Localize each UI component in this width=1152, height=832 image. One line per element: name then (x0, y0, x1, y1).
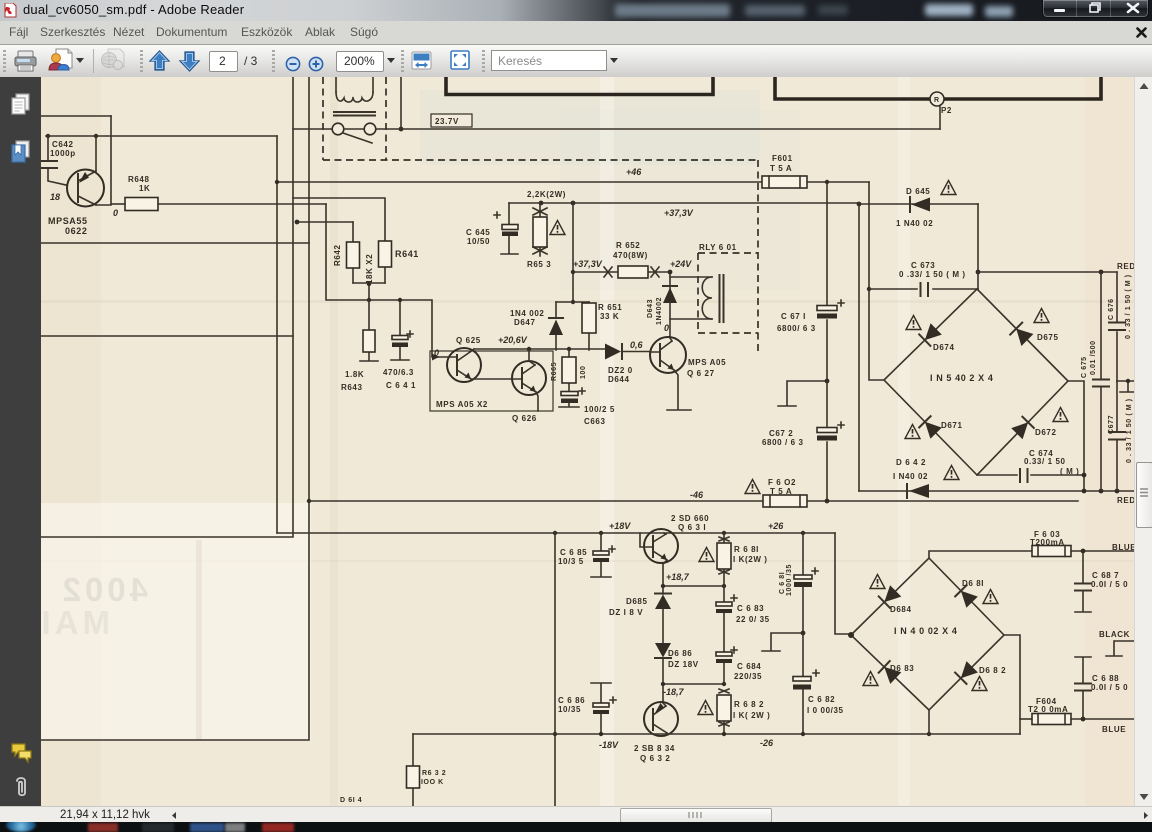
svg-text:18K X2: 18K X2 (365, 254, 374, 284)
transistor Q625 (434, 335, 528, 382)
svg-text:C 68 7: C 68 7 (1092, 571, 1119, 580)
svg-text:D 6I 4: D 6I 4 (340, 797, 362, 804)
svg-text:C642: C642 (52, 140, 74, 149)
wire node -18,7 (661, 682, 726, 697)
wire +20,6V rail y349 (474, 347, 605, 351)
svg-text:D644: D644 (608, 375, 630, 384)
relay coil (transformer) (334, 77, 375, 116)
wire vertical x869 to bridge (867, 182, 884, 380)
svg-text:1000p: 1000p (50, 149, 76, 158)
svg-text:100: 100 (580, 366, 587, 379)
svg-text:2 SD 660: 2 SD 660 (671, 514, 709, 523)
wire -46 rail (309, 490, 1078, 503)
svg-text:C 675: C 675 (1081, 356, 1088, 378)
svg-text:10/50: 10/50 (467, 237, 490, 246)
dashed enclosure inner edge (385, 77, 387, 160)
svg-text:I K( 2W ): I K( 2W ) (733, 711, 770, 720)
svg-text:23.7V: 23.7V (435, 117, 459, 126)
svg-text:C 673: C 673 (911, 261, 935, 270)
svg-text:R 652: R 652 (616, 241, 640, 250)
svg-text:2,2K(2W): 2,2K(2W) (527, 190, 566, 199)
svg-text:0: 0 (113, 208, 118, 218)
capacitor C687 (1075, 551, 1128, 612)
wire bridge right output (1068, 381, 1086, 491)
wire rail y243 (41, 242, 309, 244)
svg-text:Q 626: Q 626 (512, 414, 537, 423)
wire bus vertical x277 (276, 136, 278, 533)
wire stub x401 into dashed box (399, 77, 404, 131)
capacitor C641 (383, 298, 416, 390)
svg-text:C 6 8I: C 6 8I (779, 572, 786, 594)
wire vertical x859 (858, 204, 860, 491)
warning triangle near D681 (983, 590, 998, 604)
svg-text:DZ2 0: DZ2 0 (608, 366, 633, 375)
node BLACK output (1099, 630, 1134, 656)
transistor Q632 (599, 702, 678, 763)
wire bus vertical x293 with bottom return (41, 77, 293, 537)
svg-text:Q 625: Q 625 (456, 336, 481, 345)
warning triangle near F602 (745, 480, 760, 494)
svg-text:1 N40 02: 1 N40 02 (896, 219, 933, 228)
wire F601 to corner (807, 180, 869, 184)
transistor Q MPSA55 (48, 136, 111, 236)
wire +26 drop to bridge B2 (835, 533, 851, 634)
svg-text:D684: D684 (890, 605, 912, 614)
resistor R641 (293, 198, 419, 284)
svg-text:10/35: 10/35 (558, 705, 581, 714)
warning triangle near D672 (1053, 408, 1068, 422)
svg-text:I K(2W ): I K(2W ) (733, 555, 768, 564)
svg-text:470/6.3: 470/6.3 (383, 368, 414, 377)
zener D685 (609, 586, 671, 643)
svg-text:18: 18 (50, 192, 60, 202)
svg-text:BLACK: BLACK (1099, 630, 1130, 639)
resistor R643 (341, 300, 378, 392)
wire +18V rail y533 (277, 521, 835, 535)
wire B2 bottom vertex drop (928, 710, 930, 734)
transistor Q626 (436, 349, 546, 423)
svg-text:RLY 6 01: RLY 6 01 (699, 243, 737, 252)
capacitor C674 (977, 449, 1084, 482)
wire vertical x978 (976, 204, 981, 289)
warning triangle near D642 (944, 466, 959, 480)
wire R648 output (158, 203, 326, 205)
diode D682 (955, 661, 1006, 684)
pcb block border upper (446, 77, 713, 95)
svg-text:BLUE: BLUE (1102, 725, 1126, 734)
wire rail y222 (295, 220, 353, 225)
wire BLUE+ output (1071, 543, 1136, 553)
svg-text:MPS A05 X2: MPS A05 X2 (436, 400, 488, 409)
svg-text:MPS A05: MPS A05 (688, 358, 726, 367)
wire rail y204 (+37,3V) (509, 190, 861, 218)
resistor R653 (527, 203, 551, 269)
wire vertical drop to node 0 (110, 116, 112, 204)
svg-text:R65 3: R65 3 (527, 260, 551, 269)
diode D684 (879, 585, 912, 614)
diode D672 (1011, 417, 1056, 440)
svg-text:R 6 8 2: R 6 8 2 (734, 700, 764, 709)
warning triangle near R682 (698, 701, 713, 715)
svg-text:D674: D674 (933, 343, 955, 352)
svg-text:0.33/ 1 50: 0.33/ 1 50 (1024, 457, 1066, 466)
wire -26 rail y734 (413, 732, 1020, 748)
svg-text:0: 0 (434, 348, 439, 358)
resistor R665 (551, 349, 587, 391)
bridge rectifier B1 diamond (884, 289, 1068, 475)
svg-text:C 6 4 1: C 6 4 1 (386, 381, 416, 390)
diode D647 (510, 302, 589, 350)
svg-text:F601: F601 (772, 154, 793, 163)
svg-text:D6 8I: D6 8I (962, 579, 984, 588)
svg-text:F 6 O2: F 6 O2 (768, 478, 796, 487)
svg-text:0 . 33 / 1 50 ( M ): 0 . 33 / 1 50 ( M ) (1125, 274, 1132, 339)
svg-text:C 6 86: C 6 86 (558, 696, 585, 705)
resistor R681 (717, 533, 768, 586)
svg-text:+18,7: +18,7 (666, 572, 690, 582)
wire rail y336 (41, 335, 293, 337)
svg-text:-18V: -18V (599, 740, 619, 750)
capacitor C671 (777, 182, 844, 381)
svg-text:+24V: +24V (670, 259, 692, 269)
svg-text:2 SB 8 34: 2 SB 8 34 (634, 744, 675, 753)
svg-text:0 .33/ 1 50 ( M ): 0 .33/ 1 50 ( M ) (899, 270, 966, 279)
label D614 (340, 797, 362, 804)
svg-text:R642: R642 (333, 244, 342, 266)
svg-text:D 645: D 645 (906, 187, 930, 196)
svg-text:+26: +26 (768, 521, 784, 531)
fuse F601 (762, 154, 807, 188)
svg-text:R648: R648 (128, 175, 150, 184)
svg-text:C 6 82: C 6 82 (808, 695, 835, 704)
capacitor C683 (716, 586, 770, 652)
svg-text:I N 4 0 02 X 4: I N 4 0 02 X 4 (894, 626, 957, 636)
svg-text:6800/ 6 3: 6800/ 6 3 (777, 324, 816, 333)
fuse F602 (763, 478, 807, 507)
warning triangle near D674 (906, 316, 921, 330)
svg-text:C 676: C 676 (1108, 298, 1115, 320)
warning triangle near D683 (863, 672, 878, 686)
svg-text:IOO K: IOO K (421, 779, 444, 786)
resistor R642 (333, 222, 360, 283)
svg-text:+37,3V: +37,3V (573, 259, 603, 269)
capacitor C676 (1108, 272, 1132, 381)
trimmer P2 (930, 92, 952, 129)
svg-text:220/35: 220/35 (734, 672, 762, 681)
svg-text:-18,7: -18,7 (663, 687, 685, 697)
svg-text:+18V: +18V (609, 521, 631, 531)
matched pair box Q625/Q626 (430, 351, 553, 411)
svg-text:4002: 4002 (59, 571, 148, 608)
node 23.7V label (431, 114, 472, 127)
svg-text:D647: D647 (514, 318, 536, 327)
capacitor C675 (1081, 272, 1109, 491)
diode D675 (1010, 323, 1058, 346)
pcb block border right (775, 77, 1101, 99)
svg-text:1000 /35: 1000 /35 (786, 564, 793, 596)
svg-text:D6 83: D6 83 (890, 664, 914, 673)
svg-text:0.01 /500: 0.01 /500 (1090, 340, 1097, 375)
svg-text:DZ I 8 V: DZ I 8 V (609, 608, 643, 617)
capacitor C645 (466, 203, 518, 254)
svg-text:DZ 18V: DZ 18V (668, 660, 699, 669)
diode D644 (605, 340, 650, 384)
svg-text:1N4002: 1N4002 (656, 297, 663, 325)
warning triangle near D675 (1034, 309, 1049, 323)
wire output mid tap (1117, 379, 1135, 392)
svg-text:T200mA: T200mA (1030, 538, 1065, 547)
svg-text:D685: D685 (626, 597, 648, 606)
transistor Q631 (640, 514, 709, 586)
svg-text:22 0/ 35: 22 0/ 35 (736, 615, 770, 624)
svg-text:Q 6 27: Q 6 27 (687, 369, 715, 378)
svg-text:C67 2: C67 2 (769, 429, 793, 438)
svg-text:Q 6 3 I: Q 6 3 I (678, 523, 706, 532)
bridge rectifier B2 diamond (848, 558, 1004, 710)
svg-text:C 684: C 684 (737, 662, 761, 671)
svg-text:D643: D643 (647, 299, 654, 318)
svg-text:R643: R643 (341, 383, 363, 392)
wire collector rail y136 (46, 134, 277, 138)
capacitor C684 (716, 647, 762, 684)
fuse F603 (1030, 530, 1071, 557)
resistor R648 (111, 175, 158, 211)
svg-text:I N40 02: I N40 02 (893, 472, 928, 481)
wire jog to Q625 base (326, 204, 439, 361)
zener D686 (655, 643, 699, 701)
svg-text:T2 0 0mA: T2 0 0mA (1028, 705, 1068, 714)
svg-text:C 6 85: C 6 85 (560, 548, 587, 557)
svg-text:D675: D675 (1037, 333, 1059, 342)
wire emitter node +18,7 (661, 572, 726, 588)
svg-text:-46: -46 (690, 490, 704, 500)
resistor R632 (407, 734, 447, 806)
warning triangle near R653 (550, 221, 565, 235)
svg-text:T 5 A: T 5 A (770, 164, 792, 173)
svg-text:+37,3V: +37,3V (664, 208, 694, 218)
wire vertical x573 (571, 203, 575, 304)
dashed enclosure right edge (757, 160, 759, 352)
wire vertical x555 (553, 533, 557, 806)
svg-text:MPSA55: MPSA55 (48, 216, 88, 226)
resistor R652 (573, 241, 692, 278)
svg-text:T 5 A: T 5 A (770, 487, 792, 496)
diode D683 (879, 661, 915, 684)
warning triangle near D684 (870, 575, 885, 589)
capacitor C681 (779, 533, 818, 633)
svg-text:I N 5 40 2 X 4: I N 5 40 2 X 4 (930, 373, 993, 383)
svg-text:R665: R665 (551, 362, 558, 381)
capacitor C642 (41, 136, 76, 185)
svg-text:Q 6 3 2: Q 6 3 2 (640, 754, 670, 763)
relay contacts (332, 123, 376, 143)
wire R642/R641 junction (353, 282, 385, 302)
svg-text:C677: C677 (1108, 415, 1115, 434)
relay RLY601 (670, 243, 758, 333)
svg-text:+46: +46 (626, 167, 642, 177)
wire B2 right output (1004, 635, 1020, 734)
svg-text:100/2 5: 100/2 5 (584, 405, 615, 414)
svg-text:1K: 1K (139, 184, 150, 193)
svg-text:470(8W): 470(8W) (613, 251, 648, 260)
svg-text:33 K: 33 K (600, 312, 619, 321)
resistor R651 (582, 302, 622, 350)
svg-text:R 6 8I: R 6 8I (734, 545, 759, 554)
svg-text:0622: 0622 (65, 226, 87, 236)
svg-text:+20,6V: +20,6V (498, 335, 528, 345)
capacitor C673 (869, 261, 978, 296)
capacitor C686 (558, 683, 616, 734)
svg-text:( M ): ( M ) (1060, 467, 1079, 476)
warning triangle near D671 (905, 425, 920, 439)
svg-text:1N4 002: 1N4 002 (510, 309, 544, 318)
fuse F604 (1020, 697, 1071, 725)
svg-text:D6 8 2: D6 8 2 (979, 666, 1006, 675)
wire +46 rail y182 (275, 167, 762, 184)
capacitor C688 (1075, 657, 1128, 719)
diode D671 (919, 416, 962, 439)
svg-text:C663: C663 (584, 417, 606, 426)
svg-text:-26: -26 (760, 738, 774, 748)
svg-text:10/3 5: 10/3 5 (558, 557, 584, 566)
capacitor C682 (793, 633, 844, 734)
svg-text:MAI: MAI (41, 604, 110, 641)
wire relay rail y129 (293, 128, 940, 130)
diode D643 (647, 270, 677, 337)
svg-text:D672: D672 (1035, 428, 1057, 437)
ground stub centre tap (762, 631, 805, 651)
svg-text:C 6 83: C 6 83 (737, 604, 764, 613)
svg-text:C 67 I: C 67 I (781, 312, 806, 321)
svg-text:0.0I / 5 0: 0.0I / 5 0 (1091, 683, 1128, 692)
capacitor C663 (559, 388, 615, 426)
dashed enclosure bottom edge (323, 159, 758, 161)
capacitor C677 (1108, 381, 1133, 491)
svg-text:R6 3 2: R6 3 2 (422, 770, 446, 777)
svg-text:0: 0 (664, 323, 669, 333)
svg-text:P2: P2 (941, 106, 952, 115)
svg-text:0 . 33 / 1 50 ( M ): 0 . 33 / 1 50 ( M ) (1126, 398, 1133, 463)
svg-text:1.8K: 1.8K (345, 370, 364, 379)
svg-text:C 645: C 645 (466, 228, 490, 237)
resistor R682 (717, 689, 770, 734)
svg-text:D 6 4 2: D 6 4 2 (896, 458, 926, 467)
wire BLUE- output (1071, 717, 1134, 734)
svg-text:RED: RED (1117, 262, 1134, 271)
svg-text:0.0I / 5 0: 0.0I / 5 0 (1091, 580, 1128, 589)
svg-text:6800 / 6 3: 6800 / 6 3 (762, 438, 804, 447)
dashed enclosure left edge (322, 77, 324, 160)
diode D645 (859, 187, 978, 228)
capacitor C685 (558, 533, 615, 577)
warning triangle near R681 (699, 548, 714, 562)
svg-text:I 0 00/35: I 0 00/35 (807, 706, 844, 715)
transistor Q627 (650, 337, 726, 410)
wire B2 top output (929, 551, 1032, 558)
svg-text:R 651: R 651 (598, 303, 622, 312)
capacitor C672 (762, 381, 844, 501)
diode D642 (859, 458, 1136, 505)
svg-text:R: R (934, 97, 940, 104)
wire RED+ rail y272 (978, 262, 1136, 274)
node 0 (113, 208, 118, 218)
ground stub near C671 (778, 379, 829, 406)
wire bus vertical x309 with bottom return (41, 77, 311, 740)
diode D681 (955, 579, 984, 608)
diode D674 (919, 323, 954, 352)
svg-text:BLUE: BLUE (1112, 543, 1134, 552)
svg-text:R641: R641 (395, 249, 419, 259)
svg-text:D6 86: D6 86 (668, 649, 692, 658)
warning triangle near D645 (941, 181, 956, 195)
wire top-left horizontal (41, 115, 111, 117)
svg-text:C 6 88: C 6 88 (1092, 674, 1119, 683)
warning triangle near D682 (972, 677, 987, 691)
svg-text:D671: D671 (941, 421, 963, 430)
svg-text:RED: RED (1117, 496, 1134, 505)
svg-text:0,6: 0,6 (630, 340, 644, 350)
